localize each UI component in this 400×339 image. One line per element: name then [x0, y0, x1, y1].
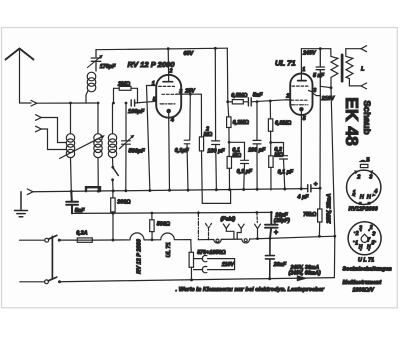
- band switch: [111, 166, 114, 169]
- wire coil1 feed: [70, 103, 72, 134]
- terminal input 1: [31, 100, 37, 106]
- svg-text:(240V, 60mA): (240V, 60mA): [289, 270, 321, 276]
- more below: [20, 212, 335, 293]
- pin 2 anode top: [167, 49, 169, 82]
- svg-text:L: L: [361, 67, 365, 73]
- pin1 anode top V2: [300, 49, 302, 81]
- svg-text:0,1 µF: 0,1 µF: [278, 170, 294, 176]
- capacitor 16uF electrolytic: [265, 212, 278, 238]
- coil L2: [94, 134, 102, 142]
- cathode V1: [166, 109, 171, 114]
- svg-text:1: 1: [355, 240, 358, 246]
- terminal input 2: [36, 115, 42, 121]
- wire 300ohm drop to heater: [112, 213, 114, 240]
- svg-text:570+1050Ω: 570+1050Ω: [197, 250, 226, 256]
- svg-text:75kΩ: 75kΩ: [303, 212, 317, 218]
- svg-text:2: 2: [285, 94, 289, 100]
- heater RV12P2000 bump: [113, 233, 144, 240]
- anode bar V2: [298, 80, 306, 82]
- wire coil3 to band switch: [112, 158, 114, 166]
- wire top rail down to screen row: [226, 48, 229, 102]
- terminal Y1: [206, 224, 212, 240]
- resistor 0.1Mohm: [228, 142, 230, 156]
- svg-text:1: 1: [302, 67, 305, 73]
- wire coil2 bottom to bus: [97, 158, 99, 192]
- heater rail mid: [72, 212, 271, 213]
- svg-text:0,3A: 0,3A: [76, 230, 87, 236]
- svg-text:1: 1: [353, 190, 356, 196]
- socket UL71 circle: [348, 222, 381, 255]
- resistor 0.2Mohm lower: [270, 143, 272, 156]
- transformer T1 primary: [331, 49, 338, 88]
- svg-text:0,8MΩ: 0,8MΩ: [275, 121, 292, 127]
- grid g1 dashed V1: [159, 85, 175, 87]
- node 5nF primary: [319, 47, 322, 50]
- svg-text:Meßinstrument: Meßinstrument: [343, 280, 382, 286]
- capacitor 5nF coupling: [248, 98, 251, 106]
- grid dashed V2: [291, 99, 307, 101]
- pin 1 wire grid: [147, 86, 157, 191]
- heater UL71 bump: [144, 233, 191, 240]
- resistor 0.8Mohm grid UL71: [269, 101, 271, 119]
- mains lead top: [20, 239, 45, 241]
- svg-text:+: +: [274, 230, 278, 237]
- svg-text:Sockelschaltungen: Sockelschaltungen: [343, 267, 393, 273]
- node coil2 top: [97, 102, 100, 105]
- wire coupling to UL71 grid: [251, 100, 291, 102]
- svg-text:UL 71: UL 71: [275, 59, 296, 68]
- mains lead bottom: [20, 281, 45, 283]
- cathode V2: [299, 107, 304, 112]
- wire secondary to speaker terminals: [346, 49, 361, 86]
- svg-text:250V, 25mA: 250V, 25mA: [327, 194, 333, 225]
- ground symbol: [15, 192, 28, 217]
- field coil dash-dot drop: [197, 213, 199, 240]
- svg-text:4 µF: 4 µF: [297, 194, 310, 200]
- svg-text:65V: 65V: [184, 51, 194, 57]
- field line with curls: [198, 236, 334, 240]
- terminal Y4: [255, 224, 261, 229]
- svg-text:2: 2: [369, 225, 373, 231]
- wire switch to bus: [112, 180, 115, 192]
- curl 1: [214, 239, 221, 243]
- terminal input 3: [36, 126, 42, 132]
- svg-text:+: +: [314, 181, 318, 188]
- variometer arrow through coils: [60, 137, 103, 159]
- transformer T1 secondary: [346, 49, 353, 86]
- wire coil bottom to grid line: [86, 91, 88, 104]
- resistor 0.5Mohm coupling: [228, 101, 233, 103]
- node screen feed row: [226, 100, 229, 103]
- wire coil3 feed: [112, 103, 114, 134]
- node primary bottom: [330, 86, 333, 89]
- svg-text:3: 3: [372, 231, 375, 237]
- node anode drop RV tube: [167, 47, 170, 50]
- capacitor 0.1uF screen bypass: [184, 94, 190, 190]
- node grid-line / 2Mohm joint: [112, 102, 115, 105]
- resistor 75kohm: [318, 209, 322, 222]
- coil L1 antenna: [66, 134, 74, 142]
- wire terminal3 tap: [41, 129, 66, 150]
- socket UL71 pins: [353, 229, 377, 251]
- svg-text:(Feld): (Feld): [221, 216, 236, 222]
- node junction coil1 top: [69, 102, 72, 105]
- svg-text:7: 7: [367, 238, 370, 244]
- node RC junction 2: [269, 141, 272, 144]
- svg-text:500Ω: 500Ω: [157, 221, 171, 227]
- wire B+ vertical with 75k: [319, 96, 321, 189]
- capacitor C 170pF trimmer: [91, 50, 101, 71]
- node 100pF drop: [214, 47, 217, 50]
- svg-text:0,1 µF: 0,1 µF: [237, 169, 253, 175]
- svg-text:110V: 110V: [222, 262, 235, 268]
- wire coil2 feed: [97, 103, 99, 134]
- node RC junction: [228, 141, 231, 144]
- wire antenna to terminal 1: [20, 102, 32, 104]
- svg-text:2: 2: [168, 69, 172, 75]
- speaker terminal bottom: [361, 83, 367, 89]
- svg-text:5: 5: [372, 240, 375, 246]
- svg-text:5nF: 5nF: [253, 93, 263, 99]
- coil antenna coupling: [87, 72, 96, 81]
- svg-text:RV12P2000: RV12P2000: [349, 207, 378, 213]
- svg-text:210V: 210V: [321, 96, 335, 102]
- grid g3 dash-dot V1: [160, 103, 176, 105]
- node 25V branch: [189, 93, 192, 96]
- wire terminal1 to grid line: [37, 102, 96, 104]
- speaker terminal top: [361, 46, 367, 52]
- svg-text:4: 4: [170, 118, 174, 124]
- pin3 tick V2: [309, 91, 313, 92]
- capacitor 4uF on bus: [308, 185, 311, 192]
- pin2 tick V2: [286, 99, 292, 101]
- resistor 2M-ohm anode load: [200, 94, 202, 137]
- svg-text:U L 71: U L 71: [358, 258, 374, 264]
- capacitor 0.1uF AVC: [229, 142, 248, 190]
- bus jog bold: [86, 187, 100, 191]
- svg-text:100pF: 100pF: [128, 109, 145, 115]
- svg-text:MΩ: MΩ: [204, 132, 213, 138]
- wire pin3 25V screen: [181, 93, 201, 95]
- svg-text:(25µF): (25µF): [274, 218, 290, 224]
- wire fuse to heater node: [95, 239, 114, 241]
- wire antenna stem: [19, 49, 21, 104]
- capacitor 20nF: [265, 238, 274, 278]
- wire top HT rail 65V: [96, 48, 227, 50]
- socket RV12P2000 top symbol: [360, 160, 366, 161]
- more below: [128, 48, 294, 203]
- svg-text:RV 12 P 2000: RV 12 P 2000: [137, 238, 143, 274]
- 110V tap jacks: [194, 255, 207, 261]
- capacitor 100pF anode line: [212, 48, 220, 190]
- svg-text:20nF: 20nF: [273, 262, 287, 268]
- capacitor 0.1uF 2: [271, 143, 288, 190]
- dash-dot line V2: [291, 104, 308, 106]
- switch S1b: [45, 280, 49, 284]
- resistor 500ohm: [150, 220, 154, 232]
- wire terminal2 tap: [41, 118, 66, 143]
- svg-text:0,5MΩ: 0,5MΩ: [231, 93, 248, 99]
- anode bar V1: [163, 81, 173, 83]
- terminal Y3: [238, 224, 244, 229]
- resistor 300ohm: [111, 198, 115, 212]
- more below: [15, 46, 367, 278]
- capacitor 5nF mains filter: [66, 191, 78, 213]
- socket key rect: [360, 164, 368, 167]
- svg-text:. Werte in Klammern: nur bei e: . Werte in Klammern: nur bei elektrodyn.…: [176, 287, 325, 293]
- svg-text:170pF: 170pF: [100, 64, 116, 70]
- current arrow: [297, 275, 308, 281]
- terminal ground chevron: [27, 189, 33, 195]
- svg-text:300Ω: 300Ω: [117, 200, 131, 206]
- resistor 0.2Mohm: [227, 102, 230, 117]
- node 500pF branch: [125, 102, 128, 105]
- switch S1a: [45, 238, 49, 242]
- transformer core: [341, 55, 344, 81]
- curl 2: [242, 239, 250, 243]
- capacitor 5nF anode: [316, 49, 324, 87]
- wire coil1 bottom to bus: [70, 158, 73, 192]
- resistor 570+1050 dropper: [190, 240, 192, 253]
- svg-text:H: H: [359, 244, 363, 250]
- coil L3 grid: [108, 134, 116, 142]
- bottom return line: [60, 278, 335, 282]
- antenna: [6, 49, 34, 60]
- wire pin3 210V: [313, 93, 321, 96]
- svg-text:1: 1: [152, 81, 155, 87]
- node 0.8M drop: [269, 100, 272, 103]
- switch link: [51, 236, 53, 278]
- svg-text:100 pF: 100 pF: [248, 148, 266, 154]
- wire 5nF bottom to primary bottom: [320, 86, 331, 95]
- socket UL71 keyhole: [361, 234, 368, 242]
- svg-text:3: 3: [359, 225, 362, 231]
- wire 240V top: [301, 48, 330, 50]
- terminal Y2: [223, 224, 229, 229]
- fuse 0.3A: [77, 238, 92, 242]
- node 100pF grid drop: [256, 100, 259, 103]
- socket RV pins: [351, 170, 377, 205]
- grid g2 dashed V1: [162, 93, 176, 95]
- svg-text:0,1µF: 0,1µF: [175, 148, 190, 154]
- wire right B+ drop: [331, 88, 335, 278]
- bus junction dots: [70, 187, 303, 193]
- wire 2M bottom loop under bus: [202, 151, 231, 204]
- svg-text:1000Ω/V: 1000Ω/V: [353, 287, 375, 293]
- svg-text:MΩ: MΩ: [232, 153, 241, 159]
- svg-text:500pF: 500pF: [129, 148, 146, 154]
- svg-text:EK 48: EK 48: [342, 97, 362, 146]
- wire 100pF to pin5: [135, 101, 157, 103]
- svg-text:5: 5: [367, 158, 370, 164]
- svg-text:2MΩ: 2MΩ: [117, 81, 131, 87]
- svg-text:240V: 240V: [302, 51, 316, 57]
- capacitor 100pF grid coupling: [131, 100, 134, 106]
- capacitor 500pF trimmer: [122, 103, 131, 191]
- screen dashed V2: [292, 85, 308, 87]
- svg-text:UL 71: UL 71: [166, 242, 172, 257]
- svg-text:H: H: [367, 244, 371, 250]
- svg-text:100 pF: 100 pF: [208, 148, 226, 154]
- wire to fuse: [59, 239, 75, 241]
- capacitor 100pF detector: [253, 102, 261, 191]
- socket RV circle: [347, 170, 381, 204]
- main chassis bus: [33, 189, 307, 192]
- svg-text:5 nF: 5 nF: [313, 73, 325, 79]
- resistor 2M-ohm grid leak: [114, 88, 138, 103]
- svg-text:2: 2: [355, 231, 359, 237]
- svg-text:0,2MΩ: 0,2MΩ: [233, 120, 250, 126]
